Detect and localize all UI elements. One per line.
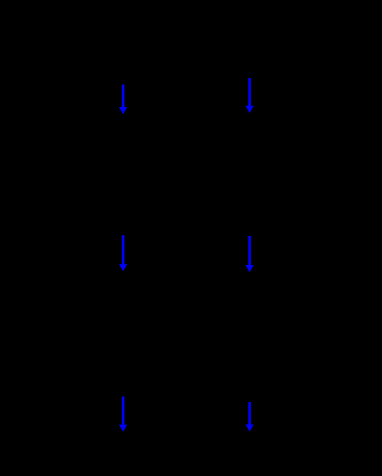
current arrow I6 (right branch, bottom) <box>246 402 254 432</box>
current arrow I3 (left branch, middle) <box>119 235 127 271</box>
current arrow I5 (left branch, bottom) <box>119 397 127 432</box>
current arrow I2 (right branch, top) <box>246 78 254 113</box>
current arrow I1 (left branch, top) <box>119 85 127 115</box>
current arrow I4 (right branch, middle) <box>246 236 254 272</box>
